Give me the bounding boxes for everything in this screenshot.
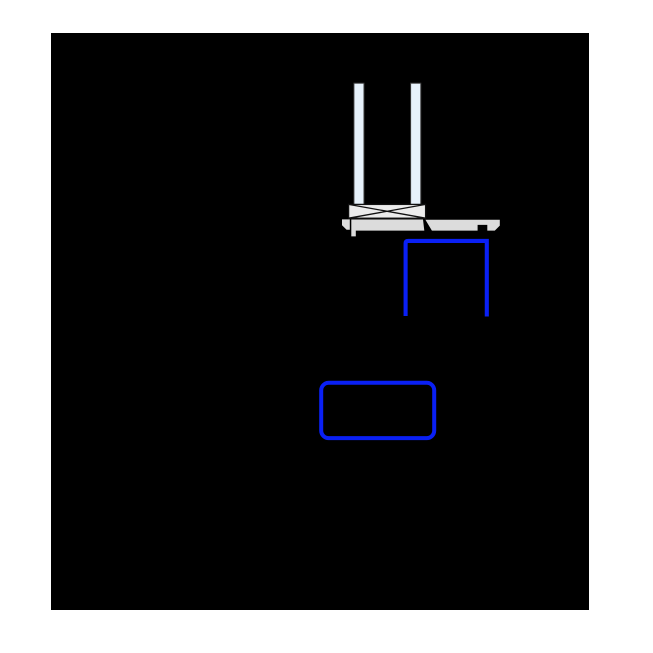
blue bracket (inverted U outline) [406,241,487,317]
blue rounded rectangle outline [321,383,434,438]
housing body (black filled block) [51,33,589,610]
right lead pin [411,83,421,205]
left lead pin [354,83,364,205]
base plate front section with mounting leg [351,220,424,237]
base plate right section with notch and chamfered end [425,220,499,231]
crimp block with X hatch [349,204,426,218]
base plate left piece [342,219,350,229]
